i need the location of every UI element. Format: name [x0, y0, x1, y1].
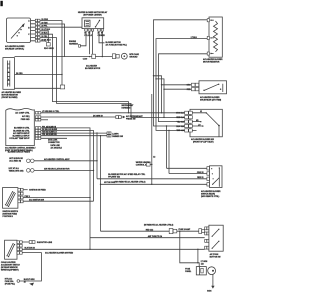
svg-text:A/C REQ: A/C REQ: [22, 115, 30, 118]
ignition switch cells: [18, 188, 21, 191]
relay pin wire: [101, 31, 103, 56]
wire feed resistor pin C: [159, 54, 208, 122]
svg-text:PWR GND: PWR GND: [21, 119, 30, 121]
push button switch box: [209, 225, 223, 251]
rear switch feed wire 4: [101, 183, 207, 185]
blower motor M1: [121, 53, 127, 59]
svg-text:(W/ REMOTE A/C-HEATER CTRLS): (W/ REMOTE A/C-HEATER CTRLS): [144, 223, 174, 226]
svg-text:DK GRN 59: DK GRN 59: [93, 115, 103, 117]
svg-text:ANT FUSE TB 14: ANT FUSE TB 14: [148, 235, 163, 238]
ignition wire 2: [23, 197, 90, 199]
rear switch feed wire 2: [169, 173, 207, 175]
svg-text:A/C-HEATER CONTROL ASSY: A/C-HEATER CONTROL ASSY: [44, 158, 70, 161]
svg-text:WIPER EQUIPMENT): WIPER EQUIPMENT): [1, 269, 19, 271]
relay pin 30 wire: [92, 31, 94, 54]
svg-text:(FRONT OF LEFT SEAT): (FRONT OF LEFT SEAT): [193, 140, 214, 143]
svg-text:M1: M1: [196, 120, 199, 122]
rear blower motor M2: [208, 267, 216, 275]
svg-text:RED 442: RED 442: [146, 228, 153, 231]
A/C-heater blower switch (front) box: [7, 18, 31, 43]
wire to HI switch pin A: [154, 76, 192, 113]
svg-text:AIR RECIRCULATION MOTOR: AIR RECIRCULATION MOTOR: [44, 168, 70, 171]
blower switch wiper arrow: [11, 25, 24, 39]
push button feed wire: [101, 230, 205, 232]
rear switch feed wire 3: [97, 178, 207, 180]
accessory blower feed long wire: [22, 248, 205, 250]
4-speed switch contacts: [192, 113, 206, 131]
svg-text:LT GRN 503 G CTRL: LT GRN 503 G CTRL: [42, 111, 60, 113]
svg-text:IGNITION SW FEED: IGNITION SW FEED: [29, 189, 46, 191]
svg-text:RED 51A: RED 51A: [176, 116, 184, 119]
svg-text:SW (REAR CONTROL): SW (REAR CONTROL): [5, 47, 24, 50]
wire hot feed 2: [34, 169, 93, 171]
rear blower switch (4-speed) box: [190, 109, 222, 137]
A/C-heater control assembly box: [6, 108, 35, 145]
svg-text:C2: C2: [153, 156, 155, 158]
svg-text:A/C MODULE: A/C MODULE: [51, 147, 63, 150]
rear blower switch cells: [207, 167, 210, 170]
svg-text:(W/O REMOTE A/C-HEATER CTRLS): (W/O REMOTE A/C-HEATER CTRLS): [115, 181, 146, 184]
svg-text:142: 142: [201, 262, 204, 265]
ant fuse wire: [90, 237, 205, 239]
relay pin 87 wire to fuse: [99, 31, 105, 43]
relay pin 86 wire to engine harness: [80, 31, 86, 46]
svg-text:ACC (RED 40): ACC (RED 40): [9, 160, 21, 163]
svg-text:RADIO/TWO-LINE: RADIO/TWO-LINE: [37, 241, 53, 244]
blower switch connector C1 cells: [31, 21, 36, 41]
svg-text:A/C-HEATER BLOWER SW FEED: A/C-HEATER BLOWER SW FEED: [45, 251, 74, 254]
blower motor connector pair: [112, 54, 115, 59]
relay pin cells: [85, 29, 88, 31]
motor branch from feed: [180, 231, 199, 266]
ignition switch contacts: [6, 192, 16, 207]
inline connector on bus: [92, 54, 96, 58]
rear switch feed wire 1: [167, 167, 207, 169]
resistor low tap wire: [15, 87, 61, 89]
svg-text:HOT IN RUN: HOT IN RUN: [104, 182, 115, 184]
pressure switch connector: [116, 116, 119, 119]
rear resistor element: [214, 21, 218, 52]
ignition wire 1: [23, 189, 28, 191]
push button switch cells: [205, 227, 207, 230]
blower feed bus wire: [15, 56, 113, 58]
svg-text:A/C COMP CTRL: A/C COMP CTRL: [15, 112, 30, 115]
svg-text:TAN 64 BLWR LO: TAN 64 BLWR LO: [42, 131, 57, 134]
rear blower switch contacts: [211, 168, 212, 169]
bullet connector pair 1: [27, 159, 31, 163]
svg-text:HARNESS: HARNESS: [69, 43, 79, 46]
svg-text:PPL/WHT 552: PPL/WHT 552: [108, 177, 120, 179]
relay coil: [85, 20, 90, 27]
accessory switch cells: [17, 241, 20, 244]
accessory wire radio: [22, 241, 29, 243]
rear resistor pin cells: [207, 19, 209, 22]
svg-text:YEL 60A: YEL 60A: [177, 120, 185, 123]
svg-text:RDO GRND: RDO GRND: [44, 48, 54, 50]
blower switch contact dots: [22, 26, 23, 27]
splice branch vertical: [151, 94, 153, 184]
svg-text:PRESS SW: PRESS SW: [126, 119, 136, 121]
unused cavity square: [46, 43, 50, 46]
svg-text:DIMMER SW: DIMMER SW: [112, 136, 123, 138]
resistor element: [7, 61, 9, 87]
relay U1 box: [82, 18, 104, 29]
ground G404: [211, 286, 214, 289]
svg-text:A/C IGNITION SW: A/C IGNITION SW: [29, 198, 44, 201]
bullet connector pair 2: [27, 169, 31, 173]
svg-text:BLU 63A: BLU 63A: [176, 125, 184, 128]
relay pin 85 wire to bus: [89, 31, 91, 54]
svg-text:C100: C100: [83, 58, 87, 60]
relay contact: [96, 21, 100, 27]
wire to HI switch pin B: [156, 79, 191, 118]
svg-text:TAN 64A: TAN 64A: [177, 129, 185, 132]
accessory switch contacts: [7, 244, 15, 257]
branch from push button: [197, 249, 199, 262]
rear motor ground wire: [212, 275, 214, 287]
engine harness connector: [79, 44, 81, 47]
svg-text:(IN POWER CENTER): (IN POWER CENTER): [83, 15, 102, 17]
rear blower HI switch cells: [191, 83, 195, 86]
svg-text:PNK 3: PNK 3: [25, 196, 30, 198]
rear blower HI switch box: [199, 81, 227, 94]
ignition switch box: [3, 188, 18, 209]
rear blower resistor box: [209, 17, 222, 57]
inline connector on feed: [169, 229, 173, 234]
svg-text:(FUSE PNL): (FUSE PNL): [5, 284, 15, 286]
svg-text:MOTOR RESISTOR: MOTOR RESISTOR: [203, 62, 220, 64]
svg-text:A/C SWITCH INPUT: A/C SWITCH INPUT: [13, 132, 30, 135]
svg-text:COOLANT TEMP INPUT: COOLANT TEMP INPUT: [9, 137, 30, 140]
svg-text:A/C FUSE (IN FUSE PNL): A/C FUSE (IN FUSE PNL): [106, 43, 128, 46]
svg-text:FUSE 10 AMP: FUSE 10 AMP: [179, 228, 191, 231]
connector at push button: [199, 229, 202, 234]
off page arrow: [29, 283, 34, 286]
heater fuse bullet: [17, 280, 20, 283]
verticals below 4-speed box: [167, 126, 170, 174]
4-speed switch cells: [185, 111, 189, 114]
rear blower switch box: [210, 166, 223, 188]
svg-text:YEL 60 BLWR M1: YEL 60 BLWR M1: [42, 134, 57, 136]
svg-text:(W/O REMOTE CTRL): (W/O REMOTE CTRL): [201, 196, 220, 198]
svg-text:BLOWER CIRCUIT FEEDS: BLOWER CIRCUIT FEEDS: [8, 152, 31, 154]
wire hot feed 1: [34, 160, 97, 162]
inline connector at resistor tap: [60, 85, 64, 89]
svg-text:CONNECTOR: CONNECTOR: [48, 142, 60, 144]
wire feed resistor pin A: [154, 20, 208, 126]
svg-text:PANEL: PANEL: [185, 270, 192, 273]
svg-text:SW (IN REAR QTR TRIM): SW (IN REAR QTR TRIM): [200, 99, 221, 102]
svg-text:POSITION B: POSITION B: [3, 216, 14, 218]
svg-text:BUTTON SW: BUTTON SW: [210, 257, 221, 259]
svg-text:(FRONT BLOWER): (FRONT BLOWER): [2, 97, 18, 99]
ignition wire 3: [23, 200, 93, 202]
svg-text:HARNESS: HARNESS: [122, 106, 132, 109]
accessory wire to heater fuse: [20, 253, 42, 281]
svg-text:GROUND: GROUND: [129, 57, 138, 59]
svg-text:42: 42: [24, 280, 26, 283]
front blower resistor box: [3, 58, 15, 90]
instrument harness connector: [107, 132, 109, 134]
cigar lighter accessory switch box: [5, 240, 17, 259]
rear motor connector box: [196, 267, 206, 275]
svg-text:BLOWER MOTOR: BLOWER MOTOR: [85, 68, 101, 70]
svg-text:BLK/TAN 43: BLK/TAN 43: [25, 247, 35, 250]
svg-text:TIMES (ORG 340): TIMES (ORG 340): [9, 169, 24, 172]
push button contacts: [212, 229, 219, 249]
HI switch contact: [204, 84, 223, 92]
